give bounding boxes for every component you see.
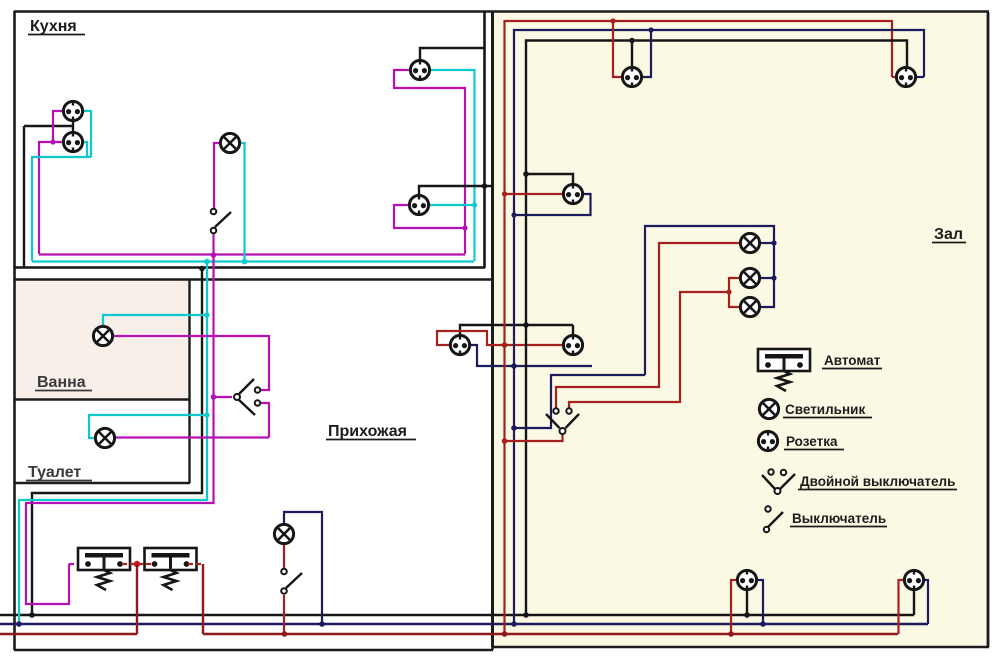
node junction red riser Z1 bbox=[502, 191, 507, 196]
node junction cyan riser top bbox=[204, 259, 210, 265]
wire kitchen magenta: socket K2 to phase bus bbox=[39, 142, 64, 254]
node junction red bus SA bbox=[728, 631, 734, 637]
switch legend switch symbol bbox=[768, 512, 783, 527]
svg-text:Туалет: Туалет bbox=[28, 464, 81, 481]
wire hallway lamp blue to neutral bus bbox=[284, 512, 322, 624]
node junction cyan riser toilet tap bbox=[204, 412, 209, 417]
wire socket SA red bbox=[731, 580, 737, 634]
node junction magenta K2 feed bbox=[50, 139, 55, 144]
wire socket T1 red drop bbox=[613, 21, 622, 77]
node junction black bus SA bbox=[744, 612, 750, 618]
node junction cyan on neutral bus bbox=[16, 621, 22, 627]
socket Z2 bbox=[563, 335, 582, 356]
node junction blue bus T1 bbox=[648, 27, 653, 32]
wire apartment bottom wall right bbox=[492, 646, 989, 648]
node junction red L2L3 tap bbox=[726, 289, 731, 294]
svg-text:Розетка: Розетка bbox=[786, 434, 838, 449]
node junction blue bus SA bbox=[760, 621, 766, 627]
node junction magenta bus tap bbox=[211, 252, 217, 258]
wire blue neutral bus bottom bbox=[0, 623, 928, 625]
wire hallway socket red loop bbox=[437, 331, 563, 345]
wire black riser hall bbox=[526, 41, 907, 616]
wire kitchen cyan: left run to bus bbox=[32, 157, 91, 261]
node junction blue riser on neutral bus bbox=[511, 621, 517, 627]
breaker A1 (automat) bbox=[78, 548, 130, 590]
node junction cyan riser K4 bbox=[472, 202, 477, 207]
node hall (Zal) room fill bbox=[494, 12, 988, 647]
wire kitchen cyan: socket K2 drop bbox=[82, 142, 87, 157]
wire kitchen lamp magenta to switch bbox=[214, 143, 220, 208]
node junction blue lamp L1 bbox=[771, 240, 776, 245]
svg-text:Автомат: Автомат bbox=[824, 353, 881, 368]
wire kitchen lamp cyan to bus bbox=[240, 143, 245, 262]
socket Z1 bbox=[563, 184, 582, 205]
node junction red riser tap bbox=[502, 342, 508, 348]
lamp legend symbol bbox=[759, 399, 778, 418]
wire magenta into breaker A1 terminal bbox=[69, 563, 85, 565]
wire magenta riser to breaker A1 bbox=[26, 255, 214, 604]
wire red link breaker A1 to A2 bbox=[122, 563, 152, 565]
svg-text:Зал: Зал bbox=[934, 226, 963, 243]
wire toilet lamp magenta bbox=[116, 436, 269, 438]
wire kitchen cyan bus bbox=[32, 260, 474, 262]
wire kitchen right wall bbox=[483, 11, 486, 268]
wire blue lamp L1 stub bbox=[761, 242, 775, 244]
wire socket Z1 black feed bbox=[526, 174, 573, 185]
lamp toilet L-T bbox=[95, 428, 114, 447]
node bath room fill bbox=[15, 280, 189, 399]
wire toilet lamp cyan bbox=[89, 415, 207, 438]
socket K1 bbox=[63, 101, 82, 122]
wire red feed lamp L1 from switch bbox=[556, 243, 740, 408]
wire red riser to double switch common bbox=[505, 434, 563, 441]
switch hallway double SW-H2 bbox=[239, 379, 255, 415]
svg-text:Ванна: Ванна bbox=[37, 374, 86, 391]
node junction magenta riser K4 bbox=[462, 225, 467, 230]
wire red riser hall bbox=[505, 21, 893, 634]
breaker A2 (automat) bbox=[145, 548, 197, 590]
wire bath toilet right wall bbox=[188, 279, 190, 483]
svg-text:Прихожая: Прихожая bbox=[328, 423, 407, 440]
wire socket SA black stub bbox=[746, 590, 748, 615]
node junction cyan riser bath tap bbox=[204, 312, 209, 317]
wire red feed lamps L2 L3 bbox=[729, 278, 740, 307]
socket legend symbol bbox=[758, 431, 777, 452]
lamp kitchen L-K bbox=[220, 133, 239, 152]
svg-text:Светильник: Светильник bbox=[785, 402, 865, 417]
wire red drop to bottom bus from breakers link bbox=[136, 564, 138, 634]
wire socket SB blue bbox=[924, 580, 928, 624]
wire blue lamps loop bbox=[645, 226, 774, 375]
node junction black riser on ground bus bbox=[29, 612, 35, 618]
wire center partition wall bbox=[491, 12, 494, 647]
socket T2 bbox=[896, 67, 915, 88]
wire red branch to switch upper bbox=[569, 292, 729, 408]
socket K2 bbox=[63, 132, 82, 153]
wire black stub through partition bbox=[485, 185, 492, 187]
svg-text:Кухня: Кухня bbox=[30, 18, 77, 35]
wire red from breaker A2 to right bus segment bbox=[188, 563, 203, 565]
wire apartment top wall bbox=[14, 10, 989, 13]
wire kitchen bottom wall bbox=[14, 266, 485, 269]
switch legend double switch symbol bbox=[762, 474, 795, 489]
lamp hall L3 bbox=[740, 297, 759, 316]
svg-text:Выключатель: Выключатель bbox=[792, 511, 886, 526]
wire apartment left wall bbox=[13, 11, 16, 650]
wire kitchen socket K3 cyan bbox=[430, 70, 475, 261]
wire kitchen socket K4 cyan bbox=[429, 204, 475, 206]
node junction red bus hallway switch bbox=[282, 631, 288, 637]
wire kitchen socket K4 black to wall bbox=[419, 186, 484, 195]
node junction red riser switch tap bbox=[502, 438, 508, 444]
wire socket SB red bbox=[899, 580, 905, 634]
socket K3 bbox=[410, 60, 429, 81]
wire kitchen socket K4 magenta bbox=[394, 205, 465, 228]
node junction black riser Z1 bbox=[523, 171, 529, 177]
wire hallway lamp red to switch bbox=[283, 544, 285, 568]
wire bath lamp magenta to hall double switch bbox=[114, 336, 269, 390]
wire kitchen magenta bus bbox=[39, 253, 465, 255]
breaker legend symbol bbox=[758, 349, 810, 391]
wire cyan riser to bottom bbox=[19, 262, 207, 625]
wire hallway socket blue loop bbox=[470, 345, 592, 366]
socket hallway bbox=[450, 335, 469, 356]
wire socket Z1 blue return bbox=[514, 194, 591, 215]
node junction blue riser tap bbox=[511, 363, 517, 369]
lamp bath L-B bbox=[93, 326, 112, 345]
lamp hallway L-H bbox=[274, 524, 293, 543]
svg-text:Двойной выключатель: Двойной выключатель bbox=[800, 474, 955, 489]
node junction black riser on ground bus bbox=[523, 612, 529, 618]
wire bath bottom wall bbox=[14, 398, 190, 400]
wire socket T1 black drop bbox=[631, 41, 633, 68]
wire kitchen switch to magenta bus bbox=[212, 234, 214, 255]
wire kitchen magenta: socket K1 to socket K2 feed bbox=[53, 111, 64, 142]
node junction black kitchen wall to riser bbox=[199, 266, 205, 272]
socket SA bbox=[737, 570, 756, 591]
node junction black riser tap Z2 bbox=[523, 322, 529, 328]
node junction black wall tap K4 bbox=[482, 183, 488, 189]
node junction blue lamp L2 bbox=[771, 275, 776, 280]
wire kitchen cyan: socket K1 drop bbox=[82, 111, 91, 157]
switch hallway SW-H1 bbox=[286, 573, 302, 588]
wire red phase bus bottom left segment bbox=[0, 633, 137, 635]
switch kitchen SW-K bbox=[215, 212, 231, 227]
wire hallway switch to red bus bbox=[283, 595, 285, 634]
wire black riser to bottom bus bbox=[32, 269, 202, 616]
wire socket T2 stubs bbox=[892, 76, 896, 78]
node junction red bus T1 bbox=[610, 18, 615, 23]
wire magenta riser to double switch common bbox=[214, 396, 233, 398]
node junction red riser on bottom bus bbox=[502, 631, 508, 637]
node junction black bus T1 bbox=[629, 38, 635, 44]
node junction cyan bus tap bbox=[242, 259, 248, 265]
switch hall double SW-Z bbox=[546, 414, 579, 428]
wire apartment right wall bbox=[987, 12, 990, 647]
lamp hall L2 bbox=[740, 268, 759, 287]
wire bath lamp cyan bbox=[103, 315, 207, 326]
wire socket T1 blue drop bbox=[642, 30, 651, 77]
wire blue return to riser bbox=[514, 375, 645, 428]
node junction blue neutral tap hallway lamp bbox=[319, 621, 325, 627]
wire socket Z2 black feed bbox=[572, 325, 574, 335]
socket K4 bbox=[409, 195, 428, 216]
socket T1 bbox=[622, 67, 641, 88]
wire blue lamp L2 stub bbox=[761, 277, 775, 279]
wire black ground bus bottom bbox=[0, 614, 914, 617]
wire socket SA blue bbox=[757, 580, 763, 624]
wire socket Z1 red feed bbox=[505, 193, 564, 195]
wire socket SB black stub bbox=[913, 590, 915, 615]
node junction red between breakers bbox=[134, 561, 140, 567]
lamp hall L1 bbox=[740, 233, 759, 252]
node junction magenta riser switch tap bbox=[211, 394, 217, 400]
wire kitchen black: sockets K1-K2 link and to left wall bbox=[72, 120, 74, 133]
wire kitchen socket K3 magenta bbox=[394, 70, 465, 254]
wire toilet bottom wall bbox=[14, 482, 190, 484]
wire hallway socket black through partition bbox=[460, 325, 573, 335]
wire hall double switch lower contact to toilet lamp bbox=[260, 403, 269, 438]
wire apartment bottom wall left bbox=[14, 649, 493, 651]
wire red phase bus bottom right segment bbox=[203, 633, 898, 635]
wire kitchen socket K3 black to wall bbox=[420, 48, 484, 60]
wire blue riser hall bbox=[514, 30, 924, 624]
node junction blue riser Z1 bbox=[511, 212, 516, 217]
socket SB bbox=[904, 570, 923, 591]
wire hallway top wall bbox=[14, 278, 492, 280]
node junction blue riser return bbox=[511, 425, 517, 431]
